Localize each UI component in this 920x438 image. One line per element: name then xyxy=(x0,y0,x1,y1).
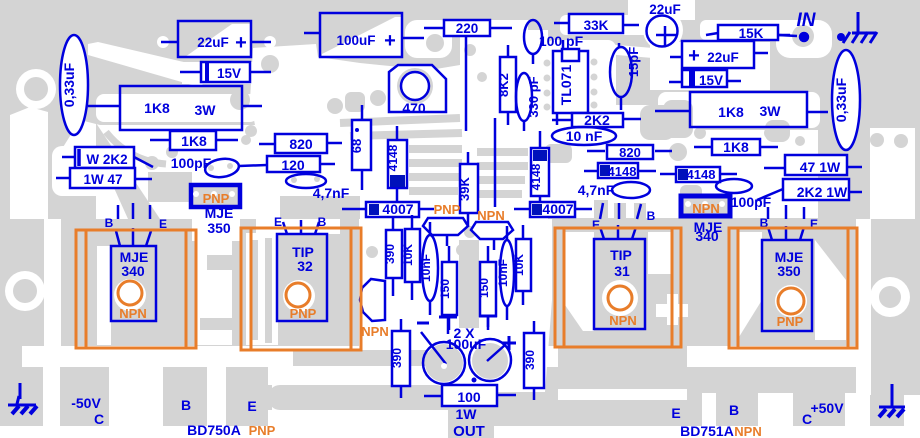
svg-text:B: B xyxy=(105,216,114,230)
capacitor 100pF right xyxy=(716,179,752,193)
svg-text:390: 390 xyxy=(383,244,397,264)
wire: left vertical trace xyxy=(44,219,61,352)
wire: under 820 left xyxy=(242,134,345,151)
pad below 0,33uF right xyxy=(838,136,852,150)
svg-text:NPN: NPN xyxy=(477,208,504,223)
svg-text:15pF: 15pF xyxy=(626,47,641,77)
svg-text:22uF: 22uF xyxy=(197,35,229,50)
svg-text:22uF: 22uF xyxy=(707,50,739,65)
wire: trace under 1K8 3W left xyxy=(96,94,258,122)
capacitor 22uF left xyxy=(178,21,251,57)
svg-text:1K8: 1K8 xyxy=(181,133,207,149)
svg-text:4148: 4148 xyxy=(608,164,637,179)
svg-text:TIP: TIP xyxy=(610,247,632,263)
op-amp TL071 xyxy=(553,51,588,113)
wire: top edge white near 22uF xyxy=(628,0,695,20)
svg-text:IN: IN xyxy=(797,10,817,31)
wire: 33K to 22uF xyxy=(560,15,650,35)
svg-text:150: 150 xyxy=(438,279,452,299)
svg-text:8K2: 8K2 xyxy=(496,73,511,97)
svg-text:4007: 4007 xyxy=(382,201,413,217)
gray pads central bottom xyxy=(366,246,378,258)
wire: under W 2K2 and 1W 47 xyxy=(52,146,170,196)
label box NPN/MJE340 right xyxy=(681,196,730,216)
wire: IN pad blob xyxy=(776,20,832,58)
wire: right of ground block xyxy=(904,395,920,438)
wire: diagonal 33K to 22uF area xyxy=(582,42,700,62)
zener 15V right xyxy=(682,70,727,87)
wire: strip left of TIP31 xyxy=(565,232,594,346)
wire: central top copper pour xyxy=(250,44,460,219)
resistor 1K8 left small xyxy=(170,131,216,150)
wire: bottom strip 1 xyxy=(109,366,163,438)
capacitor 0.33uF left xyxy=(60,35,88,135)
svg-text:100 pF: 100 pF xyxy=(539,33,584,49)
resistor 120 xyxy=(267,156,320,172)
svg-text:NPN: NPN xyxy=(361,324,388,339)
svg-text:350: 350 xyxy=(777,263,801,279)
svg-text:3W: 3W xyxy=(760,103,782,119)
node IN pad xyxy=(800,33,808,41)
svg-text:340: 340 xyxy=(695,228,719,244)
capacitor 100uF bottom 1 xyxy=(423,342,465,384)
svg-text:3W: 3W xyxy=(195,102,217,118)
capacitor 22uF top electrolytic xyxy=(647,16,678,47)
svg-text:PNP: PNP xyxy=(203,191,230,206)
svg-text:NPN: NPN xyxy=(692,201,719,216)
svg-text:22uF: 22uF xyxy=(649,2,681,17)
mounting hole left white ring xyxy=(16,69,56,109)
pad xyxy=(147,161,163,177)
svg-text:470: 470 xyxy=(402,100,426,116)
resistor 1K8 3W left xyxy=(120,86,242,130)
svg-text:1W 47: 1W 47 xyxy=(83,172,122,187)
svg-text:15V: 15V xyxy=(217,66,241,81)
svg-text:4,7nF: 4,7nF xyxy=(313,185,350,201)
wire: under 1K8 3W right xyxy=(658,92,820,128)
svg-text:100uF: 100uF xyxy=(446,336,487,352)
svg-text:PNP: PNP xyxy=(249,423,276,438)
svg-text:1W: 1W xyxy=(456,406,478,422)
wire: strip left of MJE350 xyxy=(739,232,762,337)
wire 220 down xyxy=(465,36,468,131)
mounting hole bottom-left inner xyxy=(13,279,37,303)
svg-text:10 nF: 10 nF xyxy=(566,128,603,144)
diode 4148 vertical center xyxy=(531,148,549,196)
svg-text:E: E xyxy=(671,405,680,421)
resistor 1K8 right xyxy=(712,139,760,155)
transistor PNP small center xyxy=(423,218,468,235)
zener 15V left xyxy=(201,62,250,82)
svg-text:220: 220 xyxy=(456,21,479,36)
capacitor 10 nF right horizontal xyxy=(552,127,616,145)
svg-text:4007: 4007 xyxy=(542,201,573,217)
resistor 39K xyxy=(460,164,478,213)
svg-text:OUT: OUT xyxy=(453,423,485,438)
svg-text:B: B xyxy=(647,209,656,223)
resistor 68 xyxy=(352,120,371,170)
resistor 8K2 xyxy=(500,57,516,112)
svg-text:PNP: PNP xyxy=(290,306,317,321)
resistor 10K right xyxy=(516,239,531,291)
svg-text:350: 350 xyxy=(207,220,231,236)
svg-text:330 pF: 330 pF xyxy=(526,76,541,117)
mounting hole right inner xyxy=(879,286,901,308)
svg-text:820: 820 xyxy=(619,145,641,160)
svg-text:BD750A: BD750A xyxy=(187,422,241,438)
svg-text:+50V: +50V xyxy=(810,400,844,416)
svg-text:+: + xyxy=(384,30,396,52)
svg-text:4,7nF: 4,7nF xyxy=(578,182,615,198)
svg-text:TL071: TL071 xyxy=(558,65,574,106)
svg-text:31: 31 xyxy=(614,263,630,279)
svg-text:2K2 1W: 2K2 1W xyxy=(797,184,848,200)
wire: pour under 100uF xyxy=(322,17,402,57)
pad MJE350 xyxy=(775,285,807,317)
wire: under 4,7nF left xyxy=(280,169,330,189)
resistor 150 left xyxy=(442,262,457,315)
svg-text:+: + xyxy=(688,45,700,67)
wire: bottom strip 5 xyxy=(758,393,793,438)
capacitor 100uF left xyxy=(320,13,402,57)
svg-text:0,33uF: 0,33uF xyxy=(833,77,849,122)
capacitor 0,33uF right xyxy=(832,50,860,150)
wire: trace under 15V xyxy=(182,62,255,84)
svg-text:PNP: PNP xyxy=(434,202,461,217)
resistor 100 output xyxy=(442,385,497,406)
gray islands right pour xyxy=(640,105,675,140)
svg-text:1K8: 1K8 xyxy=(718,104,744,120)
svg-text:+: + xyxy=(235,32,247,54)
wire: big pour right middle xyxy=(545,105,818,218)
wire: under 120 xyxy=(245,156,350,172)
svg-text:820: 820 xyxy=(289,136,313,152)
svg-text:B: B xyxy=(181,397,191,413)
wire: under TL071 xyxy=(546,40,616,135)
resistor 47 1W xyxy=(785,155,847,175)
svg-text:W 2K2: W 2K2 xyxy=(86,152,127,167)
gray block under TIP31 xyxy=(558,331,687,389)
svg-text:33K: 33K xyxy=(584,18,609,33)
wire: bottom strip 4 xyxy=(702,393,716,438)
svg-text:100pF: 100pF xyxy=(171,155,212,171)
wire: under 1K8 small xyxy=(150,129,250,147)
wire: top-left diagonal trace xyxy=(88,42,211,87)
wire: strip left of MJE340 xyxy=(97,246,111,345)
trimmer 470 xyxy=(389,65,446,112)
capacitor 330 pF xyxy=(516,73,532,121)
svg-text:PNP: PNP xyxy=(777,314,804,329)
resistor 220 xyxy=(444,20,490,36)
wire: white plus pad right of TIP31 xyxy=(656,304,688,317)
heatsink frame MJE350 xyxy=(729,228,857,348)
svg-text:100uF: 100uF xyxy=(336,33,375,48)
transistor NPN small center xyxy=(471,222,513,239)
mounting hole right white ring xyxy=(870,277,910,317)
svg-text:10K: 10K xyxy=(401,244,415,266)
capacitor 4,7nF left xyxy=(286,174,326,188)
svg-text:10nF: 10nF xyxy=(496,259,510,287)
wire: under +22uF and 15V xyxy=(650,42,770,90)
wire: left strip lower part xyxy=(43,346,60,438)
diode 4007 right xyxy=(530,202,575,217)
wire: strip left of TIP32 xyxy=(246,233,278,345)
svg-text:10nF: 10nF xyxy=(419,254,433,282)
ground top-right xyxy=(837,12,877,43)
gray island in top pour xyxy=(261,55,279,73)
svg-text:100pF: 100pF xyxy=(731,194,772,210)
wire: bottom ground band xyxy=(22,346,860,367)
resistor 1W 2K2 xyxy=(75,147,134,168)
svg-text:-50V: -50V xyxy=(71,395,101,411)
diode 4148 vertical left xyxy=(388,140,407,188)
capacitor 10nF left vertical xyxy=(422,235,438,301)
transistor TIP32 body xyxy=(277,234,327,321)
svg-text:C: C xyxy=(94,411,104,427)
ground bottom-left xyxy=(8,383,37,414)
svg-text:NPN: NPN xyxy=(734,424,761,438)
transistor NPN D-shape left xyxy=(360,279,385,321)
resistor 1K8 3W right xyxy=(690,92,807,127)
wire: left edge white column xyxy=(10,107,48,219)
svg-text:100: 100 xyxy=(457,389,481,405)
pad TIP32 xyxy=(283,280,315,312)
wire: central bottom copper pour xyxy=(359,219,552,392)
heatsink frame TIP31 xyxy=(555,228,681,347)
heatsink frame MJE340 xyxy=(76,230,196,348)
capacitor 10nF right vertical xyxy=(500,240,514,306)
resistor 820 left xyxy=(275,134,327,153)
svg-text:47 1W: 47 1W xyxy=(800,159,841,175)
svg-text:120: 120 xyxy=(281,157,305,173)
wire: bottom strip 3 xyxy=(272,366,295,438)
pad xyxy=(179,65,193,79)
resistor 1W 47 xyxy=(70,168,135,188)
capacitor 100 pF top (near 220) xyxy=(524,20,542,54)
capacitor 22uF right xyxy=(682,41,754,68)
transistor TIP31 body xyxy=(594,239,645,329)
svg-text:340: 340 xyxy=(121,263,145,279)
orange circle MJE340 xyxy=(118,281,142,305)
svg-text:10K: 10K xyxy=(512,254,526,276)
svg-text:15V: 15V xyxy=(699,73,723,88)
wire: strip under TIP31 gray block xyxy=(558,389,687,400)
wire: under 15K xyxy=(700,20,805,40)
capacitor 4,7nF right xyxy=(612,182,650,198)
pad xyxy=(157,36,169,48)
diode 4148 horizontal 2 xyxy=(676,167,720,182)
wire: middle band copper pour xyxy=(96,125,360,219)
wire: blob under MJE340 lead stubs xyxy=(104,205,166,219)
svg-text:0,33uF: 0,33uF xyxy=(61,62,77,107)
svg-text:4148: 4148 xyxy=(687,167,716,182)
svg-text:MJE: MJE xyxy=(205,205,234,221)
resistor 820 right xyxy=(607,145,653,159)
resistor 33K xyxy=(569,14,623,33)
pad xyxy=(261,65,275,79)
resistor 390 upper-left xyxy=(386,230,402,278)
diode 4007 left xyxy=(366,202,419,217)
svg-text:BD751A: BD751A xyxy=(680,423,734,438)
wire: strip right of frame1 xyxy=(197,232,232,345)
wire: bottom strip 2 xyxy=(207,366,226,438)
wire: bottom strip 6 xyxy=(845,393,870,438)
heatsink frame TIP32 xyxy=(241,228,361,350)
resistor 10K left xyxy=(405,229,420,282)
svg-text:150: 150 xyxy=(477,278,491,298)
transistor MJE340 body xyxy=(111,246,156,321)
svg-text:E: E xyxy=(247,398,256,414)
resistor 390 lower-left xyxy=(392,331,410,386)
wire: bottom white strip under text xyxy=(0,426,920,438)
pad MJE340 xyxy=(114,279,146,311)
svg-text:68: 68 xyxy=(349,139,364,153)
wire: blob above 8K2 xyxy=(488,20,528,58)
wire: white under MJE350 label xyxy=(192,207,240,241)
wire: white bands near 390LL xyxy=(268,367,460,385)
capacitor 100pF left xyxy=(204,157,240,180)
svg-text:B: B xyxy=(729,402,739,418)
label box PNP/MJE350 left xyxy=(191,185,240,207)
pad xyxy=(264,36,276,48)
svg-text:39K: 39K xyxy=(457,176,472,200)
wire: under 22uF top circle xyxy=(643,10,683,50)
wire: under 100pF left xyxy=(196,158,256,179)
svg-text:4148: 4148 xyxy=(529,163,543,190)
svg-text:1K8: 1K8 xyxy=(723,139,749,155)
resistor 2K2 right xyxy=(572,113,623,127)
mounting hole left inner xyxy=(24,77,48,101)
svg-text:4148: 4148 xyxy=(386,144,400,171)
wire: behind TIP31 pad xyxy=(602,280,638,316)
svg-text:E: E xyxy=(592,218,600,232)
svg-text:390: 390 xyxy=(390,348,404,368)
orange circle MJE350 xyxy=(778,288,804,314)
wire: top pour quadrant B left xyxy=(460,30,548,219)
svg-text:NPN: NPN xyxy=(119,306,146,321)
wire: right vertical trace xyxy=(856,219,871,395)
diode 4148 horizontal 1 xyxy=(598,163,638,178)
svg-text:2K2: 2K2 xyxy=(584,112,610,128)
svg-text:32: 32 xyxy=(297,258,313,274)
resistor 150 right xyxy=(480,262,496,316)
wire: trace under 22uF xyxy=(185,24,251,57)
orange circle TIP31 xyxy=(608,286,632,310)
svg-text:1K8: 1K8 xyxy=(144,100,170,116)
wire: above TIP32 xyxy=(256,215,340,234)
mounting hole bottom-left white ring xyxy=(5,271,45,311)
ground bottom-right xyxy=(879,384,905,417)
resistor 2K2 1W xyxy=(783,179,849,200)
capacitor 15pF xyxy=(610,47,632,97)
resistor 390 lower-right xyxy=(524,333,544,388)
resistor 15K xyxy=(718,25,778,40)
orange circle TIP32 xyxy=(286,283,310,307)
svg-text:390: 390 xyxy=(523,350,537,370)
svg-text:15K: 15K xyxy=(739,26,764,41)
wire: strip to W2K2 xyxy=(60,120,100,158)
gray pad around IN dot xyxy=(792,25,814,47)
transistor MJE350 body xyxy=(762,240,812,331)
svg-text:NPN: NPN xyxy=(609,313,636,328)
capacitor 100uF bottom 2 xyxy=(469,339,511,381)
